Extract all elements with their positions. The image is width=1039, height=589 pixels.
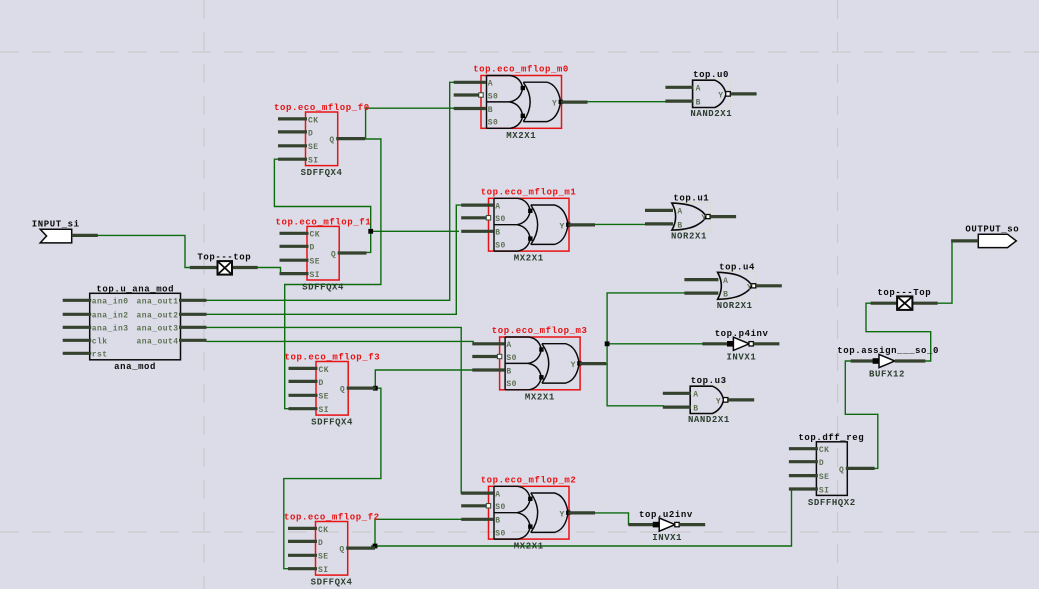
svg-text:top.eco_mflop_f2: top.eco_mflop_f2: [284, 513, 380, 523]
page boundary dashed line vertical left: [203, 0, 205, 589]
svg-text:MX2X1: MX2X1: [506, 131, 536, 141]
nand gate top.u3 NAND2X1: [663, 376, 754, 425]
svg-text:SDFFQX4: SDFFQX4: [302, 283, 344, 293]
hierarchy connector top---Top: [871, 288, 938, 310]
svg-text:D: D: [310, 244, 315, 253]
svg-text:S0: S0: [495, 241, 506, 250]
svg-text:top.eco_mflop_f3: top.eco_mflop_f3: [285, 353, 381, 363]
svg-text:SDFFHQX2: SDFFHQX2: [808, 498, 856, 508]
svg-text:A: A: [495, 491, 500, 500]
svg-text:INVX1: INVX1: [726, 352, 756, 362]
svg-text:A: A: [723, 277, 728, 286]
wire net f0.Q to m0.B and f3.SI: [285, 108, 457, 409]
svg-text:INPUT_si: INPUT_si: [32, 220, 80, 230]
analog block top.u_ana_mod (ana_mod): [63, 285, 207, 373]
junction m3.Y net at p4inv branch: [605, 341, 610, 346]
svg-text:Y: Y: [560, 223, 565, 232]
wire net dff_reg.Q to BUFX12 input: [845, 361, 878, 468]
svg-text:top.eco_mflop_m2: top.eco_mflop_m2: [481, 475, 577, 485]
svg-text:top.u3: top.u3: [691, 376, 727, 386]
svg-text:SE: SE: [319, 393, 330, 402]
svg-text:A: A: [506, 341, 511, 350]
svg-text:ana_in0: ana_in0: [92, 298, 129, 307]
svg-text:ana_out3: ana_out3: [136, 325, 178, 334]
svg-text:B: B: [495, 229, 500, 238]
mux top.eco_mflop_m3 MX2X1: [472, 326, 606, 402]
svg-text:NAND2X1: NAND2X1: [688, 415, 730, 425]
svg-text:OUTPUT_so: OUTPUT_so: [965, 225, 1019, 235]
svg-text:Y: Y: [718, 91, 723, 100]
svg-text:CK: CK: [310, 231, 321, 240]
wire net f3.Q to m3.B and f2.SI: [284, 370, 475, 569]
svg-text:D: D: [319, 379, 324, 388]
svg-text:top.eco_mflop_m1: top.eco_mflop_m1: [481, 187, 577, 197]
svg-text:NAND2X1: NAND2X1: [690, 109, 732, 119]
flip-flop top.eco_mflop_f3 SDFFQX4: [285, 353, 381, 428]
wire net m1.Y to u1.B: [594, 223, 648, 225]
wire net BUFX12 output to top---Top to OUTPUT_so: [866, 241, 953, 361]
svg-text:CK: CK: [308, 116, 319, 125]
svg-text:top.eco_mflop_f1: top.eco_mflop_f1: [276, 217, 372, 227]
svg-text:SI: SI: [319, 406, 330, 415]
svg-text:SE: SE: [318, 553, 329, 562]
mux top.eco_mflop_m2 MX2X1: [461, 475, 595, 551]
svg-text:rst: rst: [92, 351, 108, 360]
svg-text:Y: Y: [747, 283, 752, 292]
svg-text:S0: S0: [488, 92, 499, 101]
svg-text:Q: Q: [329, 136, 334, 145]
junction f1.Q net: [368, 229, 373, 234]
svg-text:ana_out1: ana_out1: [136, 298, 178, 307]
svg-text:A: A: [495, 203, 500, 212]
wire net INPUT_si to Top---top to f1.SI: [97, 235, 283, 273]
junction f2.Q net: [373, 544, 378, 549]
wire net f1.Q scan to f0.SI and m1.B: [274, 159, 459, 252]
flip-flop top.dff_reg SDFFHQX2: [789, 433, 875, 508]
svg-text:MX2X1: MX2X1: [525, 392, 555, 402]
svg-text:B: B: [723, 291, 728, 300]
svg-text:MX2X1: MX2X1: [514, 254, 544, 264]
svg-text:top.u2inv: top.u2inv: [639, 510, 693, 520]
svg-text:top.assign___so_0: top.assign___so_0: [837, 346, 939, 356]
svg-text:ana_in2: ana_in2: [92, 312, 129, 321]
svg-text:Y: Y: [716, 397, 721, 406]
svg-text:SI: SI: [310, 271, 321, 280]
svg-text:A: A: [677, 208, 682, 217]
svg-text:D: D: [819, 459, 824, 468]
svg-text:S0: S0: [506, 354, 517, 363]
svg-text:top.p4inv: top.p4inv: [715, 329, 769, 339]
inverter top.u2inv INVX1: [629, 510, 706, 543]
svg-text:A: A: [488, 80, 493, 89]
svg-text:Y: Y: [560, 511, 565, 520]
svg-text:B: B: [506, 367, 511, 376]
svg-text:SI: SI: [318, 566, 329, 575]
svg-text:top.eco_mflop_f0: top.eco_mflop_f0: [274, 103, 370, 113]
wire net f2.Q to m2.B and dff_reg.SI: [371, 489, 792, 546]
svg-text:SE: SE: [819, 473, 830, 482]
svg-text:SDFFQX4: SDFFQX4: [311, 418, 353, 428]
svg-text:top.u_ana_mod: top.u_ana_mod: [96, 285, 174, 295]
svg-text:SE: SE: [308, 143, 319, 152]
svg-text:D: D: [308, 129, 313, 138]
wire net m3.Y to u4.B, p4inv.A, u3.B: [604, 293, 703, 406]
svg-text:ana_mod: ana_mod: [114, 362, 156, 372]
svg-text:B: B: [693, 404, 698, 413]
svg-text:top.u0: top.u0: [693, 70, 729, 80]
svg-text:Q: Q: [339, 546, 344, 555]
svg-text:S0: S0: [506, 380, 517, 389]
svg-text:CK: CK: [319, 366, 330, 375]
svg-text:top.u4: top.u4: [719, 263, 755, 273]
wire net m2.Y to u2inv.A: [593, 513, 630, 525]
wire net ana_out2 to m1.A: [206, 205, 463, 314]
svg-text:ana_out4: ana_out4: [136, 338, 178, 347]
svg-text:B: B: [677, 221, 682, 230]
svg-text:NOR2X1: NOR2X1: [717, 301, 753, 311]
mux top.eco_mflop_m1 MX2X1: [461, 187, 595, 263]
flip-flop top.eco_mflop_f2 SDFFQX4: [284, 513, 380, 588]
svg-text:S0: S0: [488, 119, 499, 128]
svg-text:top.dff_reg: top.dff_reg: [798, 433, 864, 443]
mux top.eco_mflop_m0 MX2X1: [454, 65, 588, 141]
svg-text:Q: Q: [331, 250, 336, 259]
svg-text:SI: SI: [819, 486, 830, 495]
svg-text:S0: S0: [495, 503, 506, 512]
svg-text:clk: clk: [92, 338, 108, 347]
svg-text:S0: S0: [495, 529, 506, 538]
inverter top.p4inv INVX1: [702, 329, 779, 362]
svg-text:Y: Y: [701, 214, 706, 223]
svg-text:SDFFQX4: SDFFQX4: [301, 168, 343, 178]
svg-text:Q: Q: [340, 386, 345, 395]
svg-text:top.eco_mflop_m3: top.eco_mflop_m3: [492, 326, 588, 336]
wire net m0.Y to u0.B: [587, 101, 668, 103]
wire net ana_out1 to m0.A: [206, 82, 456, 300]
page boundary dashed line horizontal top: [0, 51, 1039, 53]
wire net ana_out4 to m3.A: [206, 341, 475, 343]
svg-text:A: A: [693, 391, 698, 400]
svg-text:top.u1: top.u1: [673, 193, 709, 203]
junction f3.Q net: [373, 386, 378, 391]
svg-text:NOR2X1: NOR2X1: [671, 232, 707, 242]
svg-text:top.eco_mflop_m0: top.eco_mflop_m0: [473, 65, 569, 75]
svg-text:Q: Q: [839, 466, 844, 475]
svg-text:CK: CK: [819, 446, 830, 455]
svg-text:Y: Y: [552, 100, 557, 109]
svg-text:ana_out2: ana_out2: [136, 312, 178, 321]
svg-text:MX2X1: MX2X1: [514, 542, 544, 552]
svg-text:Y: Y: [571, 361, 576, 370]
svg-text:D: D: [318, 539, 323, 548]
svg-text:B: B: [696, 98, 701, 107]
nand gate top.u0 NAND2X1: [665, 70, 756, 119]
nor gate top.u1 NOR2X1: [645, 193, 736, 241]
nor gate top.u4 NOR2X1: [684, 263, 781, 311]
flip-flop top.eco_mflop_f0 SDFFQX4: [274, 103, 370, 178]
input port INPUT_si: [32, 220, 98, 243]
hierarchy connector Top---top: [190, 252, 258, 274]
flip-flop top.eco_mflop_f1 SDFFQX4: [276, 217, 372, 292]
svg-text:ana_in3: ana_in3: [92, 325, 129, 334]
svg-text:B: B: [495, 517, 500, 526]
output port OUTPUT_so: [951, 225, 1019, 248]
wire net ana_out3 to m2.A: [206, 327, 463, 493]
svg-text:SI: SI: [308, 157, 319, 166]
page boundary dashed line vertical right: [837, 0, 839, 589]
svg-text:B: B: [488, 106, 493, 115]
svg-text:BUFX12: BUFX12: [869, 370, 905, 380]
svg-text:S0: S0: [495, 215, 506, 224]
svg-text:SE: SE: [310, 258, 321, 267]
page boundary dashed line horizontal bottom: [0, 531, 1039, 533]
svg-text:CK: CK: [318, 526, 329, 535]
svg-text:INVX1: INVX1: [652, 533, 682, 543]
svg-text:A: A: [696, 85, 701, 94]
buffer top.assign___so_0 BUFX12: [837, 346, 939, 379]
svg-text:SDFFQX4: SDFFQX4: [311, 578, 353, 588]
